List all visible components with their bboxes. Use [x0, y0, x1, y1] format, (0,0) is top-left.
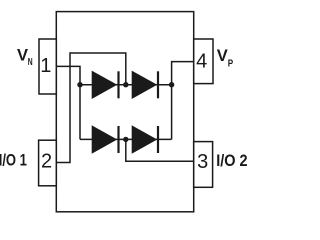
- wire bottom diode row: [80, 138, 172, 140]
- diode D2: [132, 71, 158, 99]
- svg-text:P: P: [228, 59, 234, 70]
- svg-text:2: 2: [41, 151, 52, 173]
- wire pin3 to bottom mid node: [126, 139, 194, 161]
- diode D3: [92, 125, 119, 153]
- pin 1 box: [39, 39, 56, 94]
- svg-text:3: 3: [197, 151, 208, 173]
- pin 2 box: [39, 140, 57, 186]
- svg-text:V: V: [217, 47, 228, 65]
- label VP: [217, 47, 234, 70]
- svg-text:V: V: [17, 47, 28, 65]
- pin 3 box: [194, 142, 213, 188]
- wire pin4 to node B and down to bottom row: [172, 62, 194, 140]
- diode D1: [92, 71, 119, 99]
- wire top diode row: [80, 84, 172, 86]
- pin 4 box: [194, 39, 213, 84]
- wire pin1 to node A and down to bottom row: [56, 66, 80, 139]
- package outline: [56, 12, 193, 212]
- wire pin2 to top mid node: [56, 53, 126, 163]
- svg-text:1: 1: [40, 55, 51, 77]
- diode D4: [132, 125, 158, 153]
- node B junction dot: [169, 82, 174, 87]
- node A junction dot: [77, 82, 82, 87]
- svg-text:N: N: [28, 57, 33, 68]
- svg-text:4: 4: [196, 50, 207, 72]
- node top-mid junction dot: [123, 82, 128, 87]
- svg-text:I/O 2: I/O 2: [216, 152, 247, 170]
- svg-text:I/O 1: I/O 1: [0, 152, 27, 170]
- label VN: [17, 47, 33, 68]
- node bottom-mid junction dot: [123, 137, 128, 142]
